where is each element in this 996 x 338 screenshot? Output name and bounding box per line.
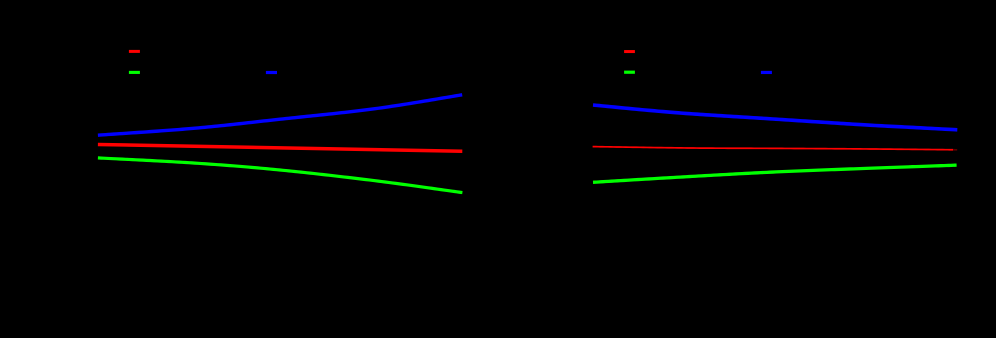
- legend swatch green (left panel): [129, 71, 140, 74]
- legend swatch red (left panel): [129, 50, 140, 53]
- curve red flat declining (left panel): [98, 145, 462, 152]
- legend swatch green (right panel): [624, 71, 635, 74]
- curve green rising (right panel): [593, 165, 957, 182]
- legend swatch blue (right panel): [761, 71, 772, 74]
- curve red flat (right panel): [593, 147, 953, 150]
- legend swatch blue (left panel): [266, 71, 277, 74]
- curve blue declining (right panel): [593, 105, 957, 130]
- curve blue rising (left panel): [98, 95, 462, 135]
- curve red faint tail (right panel): [953, 149, 957, 151]
- legend swatch red (right panel): [624, 50, 635, 53]
- curve green declining (left panel): [98, 158, 463, 193]
